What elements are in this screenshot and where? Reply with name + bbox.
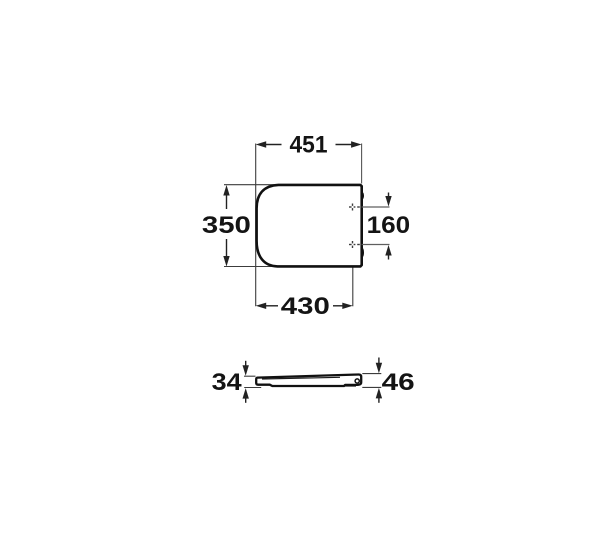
svg-text:451: 451 [290,131,328,158]
hinge bump lower on right edge [362,248,364,257]
seat top-view outline [257,185,362,267]
dim 350 line bottom segment + arrow [223,239,229,267]
34 arrow down (above) [243,361,249,376]
side view bottom bumper pad [345,385,356,387]
160 reference line lower [362,244,390,246]
hinge bump upper on right edge [362,193,364,200]
dim 350 line top segment + arrow [223,185,229,209]
svg-text:160: 160 [367,212,411,239]
46 arrow up (below) [376,388,382,403]
extension line left vertical (451/430 left) [255,144,257,307]
side view inner contour line [262,377,340,379]
34 extension line top [244,375,256,377]
svg-text:34: 34 [212,369,243,396]
svg-text:430: 430 [281,293,330,320]
svg-text:46: 46 [382,369,415,396]
dim 430 line right segment + arrow [333,303,353,309]
extension line 350 top horizontal [224,184,290,186]
160 arrow up (below lower line) [385,245,391,260]
dim 451 line left segment + arrow [256,141,282,147]
160 reference line upper [362,206,390,208]
svg-text:350: 350 [202,212,251,239]
46 arrow down (above) [376,358,382,374]
hinge pin circle [355,379,359,383]
dim 451 line right segment + arrow [336,141,362,147]
160 arrow down (above upper line) [385,193,391,207]
46 extension line bottom [362,386,381,388]
hinge cross lower (center mark) [349,241,360,248]
extension line 430 right (hinge axis) [352,250,354,306]
extension line right vertical (451 right) [361,144,363,184]
side view seat profile [256,375,361,387]
46 extension line top [362,373,381,375]
34 extension line bottom [244,387,261,389]
extension line 350 bottom horizontal [224,266,280,268]
hinge cross upper (center mark) [349,204,360,211]
dim 430 line left segment + arrow [256,303,278,309]
34 arrow up (below) [243,388,249,403]
